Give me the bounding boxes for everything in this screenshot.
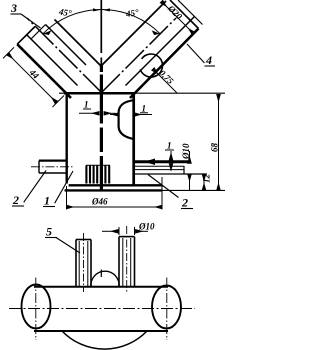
wire: body top edge (with extensions left and right) [59, 92, 225, 94]
hatched plug at bottom [86, 165, 110, 183]
right ellipse vertical centerline [166, 278, 168, 341]
right arm socket outer edge [130, 29, 199, 99]
svg-text:1: 1 [44, 194, 50, 208]
svg-text:45°: 45° [57, 6, 72, 18]
left arm end cap [17, 27, 35, 45]
right arm centerline [102, 18, 177, 93]
left arm centerline [27, 18, 102, 93]
0,75 callout [140, 54, 177, 93]
left arm tube lower edge [46, 25, 87, 66]
dim 1 (slot width) [79, 100, 116, 114]
left stub pipe [39, 161, 67, 173]
body right edge [132, 93, 135, 187]
right arm end cap [170, 0, 199, 29]
label 2 left [12, 171, 46, 208]
dim 1 (right stub wall) [165, 141, 174, 171]
svg-text:Ø20: Ø20 [165, 3, 184, 22]
svg-text:0,75: 0,75 [157, 68, 176, 87]
label 4 [187, 44, 215, 67]
svg-text:5: 5 [46, 225, 52, 239]
svg-text:12: 12 [202, 174, 212, 184]
right tube [119, 237, 135, 287]
left arm bore line [55, 20, 102, 67]
left tube centerline [83, 233, 85, 292]
right arm socket inner edge [126, 17, 195, 86]
bottom flange arc [62, 331, 147, 349]
cylinder bottom edge [34, 330, 168, 332]
arc arrows [43, 30, 52, 35]
dim O20 [162, 2, 194, 34]
right arm bore line [101, 1, 166, 66]
cylinder right end ellipse [152, 286, 181, 329]
bottom rim line (with extension to dims) [65, 189, 225, 191]
dim O10 (right stub) [181, 143, 191, 190]
svg-text:3: 3 [10, 1, 17, 15]
right tube centerline [126, 226, 128, 293]
left arm socket inner edge [27, 35, 78, 86]
cylinder left end ellipse [22, 285, 51, 329]
svg-text:1: 1 [167, 141, 172, 151]
dim O46 [67, 177, 163, 210]
label 5 [45, 225, 80, 254]
svg-text:2: 2 [181, 196, 188, 210]
arrow on right stub [144, 159, 155, 166]
membrane bump on right wall [119, 100, 133, 139]
dim 44 [3, 47, 64, 107]
central slot (thick dashed bore line) [100, 66, 103, 191]
label 2 right [148, 175, 193, 210]
dim 68 [210, 95, 220, 191]
left tube [76, 240, 91, 287]
svg-text:1: 1 [142, 104, 147, 114]
dim 1 (membrane) [110, 104, 152, 115]
label 3 [10, 1, 41, 28]
left arm socket outer edge [17, 44, 71, 98]
45 degree arc [43, 9, 160, 33]
dim O10 bottom [102, 222, 155, 236]
svg-text:1: 1 [84, 100, 89, 110]
body left edge [65, 93, 67, 184]
left stub centerline [31, 166, 73, 168]
vertical centerline (top leg) [100, 0, 102, 66]
svg-text:4: 4 [205, 53, 212, 67]
svg-text:Ø46: Ø46 [91, 197, 108, 207]
svg-text:44: 44 [27, 67, 41, 81]
hump between tubes [91, 271, 119, 287]
svg-text:2: 2 [12, 193, 19, 207]
cylinder top edge [34, 286, 168, 288]
cylinder axis centerline [9, 308, 195, 310]
right stub pipe [134, 162, 207, 174]
label 1 [43, 171, 73, 208]
body bottom edge [69, 184, 162, 186]
left ellipse vertical centerline [35, 278, 37, 341]
left arm second cap [31, 25, 46, 40]
right arm second cap [178, 0, 203, 25]
dim 12 [202, 174, 212, 191]
svg-text:Ø10: Ø10 [138, 222, 155, 232]
